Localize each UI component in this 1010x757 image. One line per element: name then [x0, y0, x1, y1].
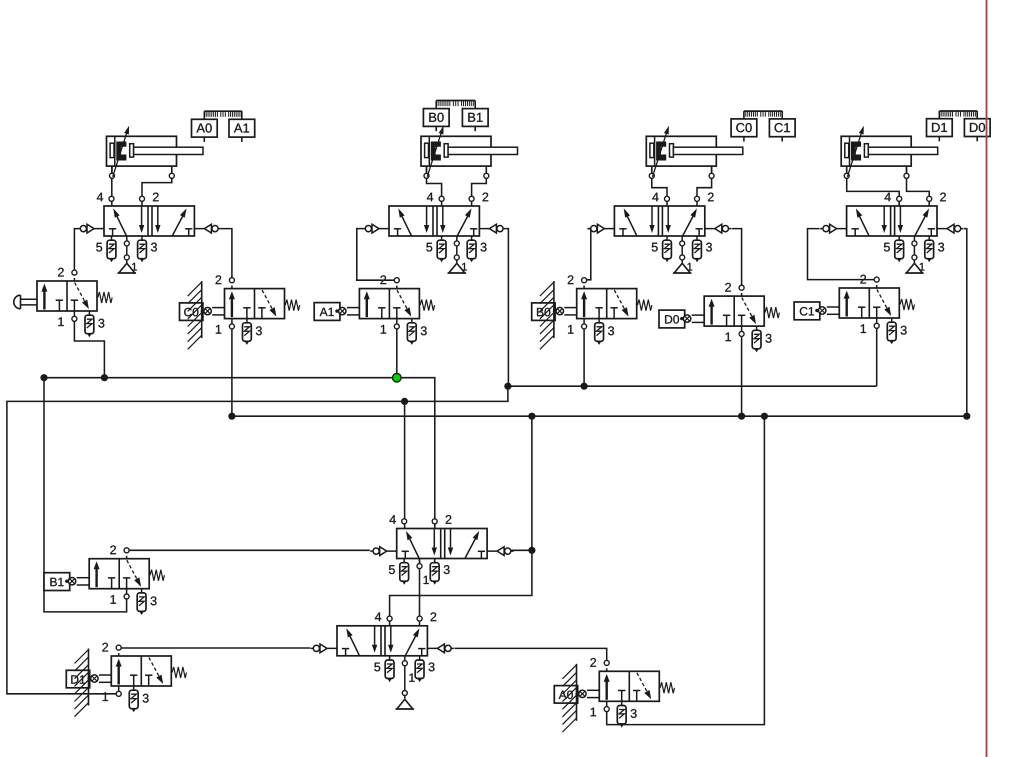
wire cylinder C right port to valve V3 port 2 — [697, 166, 712, 206]
wire valve V6 right pilot to valve A0 port 2 — [455, 648, 607, 663]
wire cylinder A left port to valve V1 port 4 — [111, 166, 113, 206]
3/2-way valve D1 body — [111, 656, 186, 686]
limit cam A0 with wall (actuated) for valve A0 — [554, 664, 577, 732]
wire valve V2 left pilot to valve A1 port 2 — [357, 229, 397, 281]
wire valve V3 right pilot to valve D0 port 2 — [732, 229, 742, 288]
junction node at (966.8,416.2) — [963, 413, 970, 420]
limit switch label box D0 for valve D0 — [659, 310, 685, 328]
roller of valve D1 — [87, 675, 111, 683]
5/2-way double pilot valve V5 — [370, 529, 513, 559]
wire cascade valve V5 port 4 to bus S1 — [404, 401, 406, 528]
wire valve B1 port 2 to valve V5 left pilot — [127, 549, 370, 551]
ports 2,1,3 of valve C1 — [860, 275, 906, 345]
3/2-way valve S1 body — [37, 281, 112, 311]
wire valve V2 right pilot to bus line S1 — [506, 229, 509, 387]
highlighted junction node (green) — [393, 373, 402, 382]
junction node at (764.4,416.2) — [761, 413, 768, 420]
wire valve A0 port 1 to bus S2 — [607, 416, 765, 724]
junction node at (531.9,416.2) — [528, 413, 535, 420]
junction node at (531.9,550.3) — [528, 547, 535, 554]
bus line S1 from cascade valve V5 port 4 to valve D1 port 1 — [7, 386, 877, 694]
wire valve B0 port 1 to bus line S1 — [583, 326, 585, 386]
roller of valve C1 — [815, 307, 839, 315]
ports 2,1,3 of valve C0 — [216, 275, 262, 345]
ports 2,1,3 of valve D0 — [725, 283, 771, 353]
ports 2,1,3 of valve B0 — [568, 275, 614, 345]
3/2-way valve A0 body — [599, 671, 674, 701]
3/2-way valve C0 body — [225, 289, 300, 319]
bus line P1 from cascade valve V5 port 2 — [44, 378, 435, 529]
roller of valve A1 — [335, 307, 359, 315]
wire valve V4 left pilot to valve C1 port 2 — [808, 229, 877, 280]
5/2-way double pilot valve V4 — [820, 206, 963, 236]
cylinder C (double-acting) — [646, 126, 743, 179]
roller of valve A0 — [575, 690, 599, 698]
wire valve V1 right pilot to valve C0 port 2 — [221, 229, 232, 281]
junction node at (507.9,386.2) — [504, 383, 511, 390]
wire valve V3 left pilot to valve B0 port 2 — [584, 229, 591, 280]
ports 2,1,3 of valve D1 — [102, 643, 148, 713]
ports 2,1,3 of valve S1 — [58, 268, 104, 338]
ports 2,1,3 of valve B1 — [110, 545, 156, 615]
ports 2,1,3 of valve A0 — [590, 658, 636, 728]
3/2-way valve A1 body — [359, 289, 434, 319]
cylinder D (double-acting) — [841, 126, 938, 179]
wire cylinder D right port to valve V4 port 2 — [907, 166, 930, 206]
distance rule for cylinder B with labels B0 B1 — [423, 101, 488, 132]
3/2-way valve C1 body — [839, 288, 914, 318]
ports 4,2,5,3,1 of valve V4 — [884, 193, 946, 273]
cylinder A (double-acting) — [107, 126, 204, 179]
limit switch label box B1 for valve B1 — [44, 573, 70, 591]
wire cylinder B left port to valve V2 port 4 — [427, 166, 442, 206]
cylinder B (double-acting) — [421, 126, 518, 179]
wire valve A1 port 1 to pressure line P1 (green node) — [396, 326, 398, 377]
ports 4,2,5,3,1 of valve V5 — [389, 515, 451, 585]
limit cam B0 with wall (actuated) for valve B0 — [532, 281, 555, 349]
push-button 3/2 valve S1 (start) — [14, 295, 37, 309]
junction node at (231.9,416.2) — [228, 413, 235, 420]
wire cylinder C left port to valve V3 port 4 — [652, 166, 667, 206]
ports 4,2,5,3,1 of valve V3 — [652, 193, 714, 273]
wire valve V5 right pilot to valve V6 port 4 — [390, 550, 532, 626]
ports 2,1,3 of valve A1 — [380, 275, 426, 345]
wire cylinder D left port to valve V4 port 4 — [847, 166, 900, 206]
wire valve V1 left pilot to valve S1 port 2 — [74, 229, 77, 273]
roller of valve C0 — [201, 307, 225, 315]
wire cylinder A right port to valve V1 port 2 — [142, 166, 172, 206]
ports 4,2,5,3,1 of valve V1 — [96, 193, 158, 273]
wire cylinder B right port to valve V2 port 2 — [472, 166, 487, 206]
junction node at (741.6,416.2) — [738, 413, 745, 420]
5/2-way double pilot valve V1 — [78, 206, 221, 236]
wire valve V4 right pilot to bus line S2 — [964, 229, 967, 417]
limit cam C0 with wall (actuated) for valve C0 — [180, 281, 203, 349]
3/2-way valve B1 body — [89, 559, 164, 589]
distance rule for cylinder A with labels A0 A1 — [192, 111, 255, 142]
ports 4,2,5,3,1 of valve V6 — [374, 612, 436, 709]
3/2-way valve B0 body — [577, 289, 652, 319]
red page-break line — [986, 0, 988, 757]
wire valve C1 port 1 to line S1 — [876, 326, 878, 386]
3/2-way valve D0 body — [704, 296, 779, 326]
limit switch label box C1 for valve C1 — [794, 302, 820, 320]
junction node at (584.1,386.2) — [581, 383, 588, 390]
roller of valve B1 — [65, 578, 89, 586]
wire bus S2 to cascade pilot node — [531, 416, 533, 550]
distance rule for cylinder C with labels C0 C1 — [731, 111, 795, 141]
wire valve D1 port 2 to valve V6 left pilot — [119, 647, 310, 649]
ports 4,2,5,3,1 of valve V2 — [426, 193, 488, 273]
junction node at (44,377.7) — [40, 374, 47, 381]
wire valve D0 port 1 to bus line S2 — [741, 334, 743, 416]
5/2-way double pilot valve V2 — [363, 206, 506, 236]
wire valve S1 port 1 to pressure line P1 — [74, 319, 104, 378]
wire bus P1 to valve B1 port 1 — [44, 378, 127, 612]
wire valve V5 port 1 to valve V6 port 2 — [419, 559, 421, 627]
distance rule for cylinder D with labels D1 D0 — [927, 111, 991, 141]
roller of valve D0 — [680, 315, 704, 323]
wire valve C0 port 1 to bus line S2 — [231, 326, 233, 416]
bus line S2 from cascade valve V6 port 4 — [232, 415, 967, 417]
roller of valve B0 — [553, 307, 577, 315]
5/2-way double pilot valve V3 — [588, 206, 731, 236]
5/2-way double pilot valve V6 — [311, 626, 454, 656]
junction node at (104.4,377.7) — [101, 374, 108, 381]
junction node at (404.6,401.4) — [401, 398, 408, 405]
limit cam D1 with wall (actuated) for valve D1 — [66, 649, 89, 717]
limit switch label box A1 for valve A1 — [314, 303, 340, 321]
